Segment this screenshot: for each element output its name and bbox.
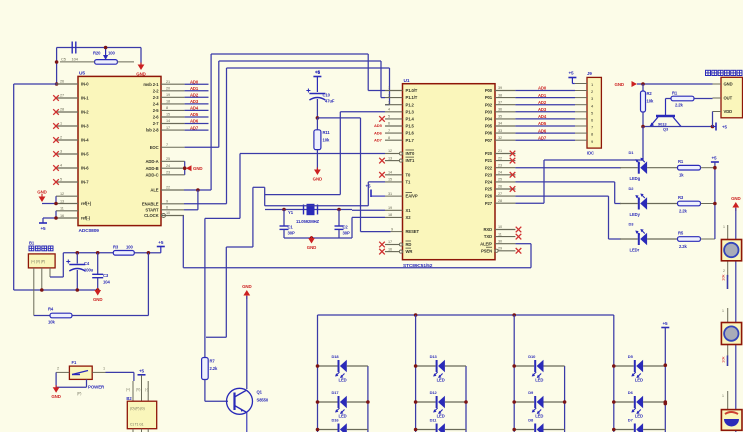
svg-text:22: 22	[166, 186, 170, 190]
svg-text:18: 18	[166, 100, 170, 104]
ADC ADD-A ADD-B ADD-C pins	[146, 157, 185, 177]
MCU X1 X2 pins	[385, 206, 411, 220]
svg-text:P01: P01	[485, 95, 493, 100]
svg-text:AD7: AD7	[374, 137, 383, 142]
wire crystal bottom	[284, 217, 352, 239]
svg-text:P24: P24	[485, 180, 493, 185]
no-connect X marks on IN-1..IN-7	[53, 95, 59, 185]
svg-text:2: 2	[60, 136, 62, 140]
svg-text:P23: P23	[485, 172, 493, 177]
svg-text:R1: R1	[678, 159, 684, 164]
svg-text:36: 36	[498, 108, 502, 112]
svg-text:AD3: AD3	[538, 107, 547, 112]
svg-text:AD5: AD5	[374, 123, 383, 128]
svg-text:100: 100	[126, 245, 133, 250]
svg-text:2-2: 2-2	[153, 88, 160, 93]
wire below S2 blue	[727, 356, 729, 367]
svg-text:5: 5	[60, 178, 62, 182]
wire P22 to LEDg row	[515, 167, 621, 169]
svg-text:34: 34	[498, 122, 502, 126]
wire ALE to START	[184, 190, 198, 210]
svg-text:32: 32	[498, 136, 502, 140]
wire EOC net to P1.1	[185, 61, 385, 147]
svg-text:R3: R3	[113, 245, 119, 250]
svg-text:(+) (V) (P): (+) (V) (P)	[31, 260, 45, 264]
wire IN-0 long left	[14, 84, 57, 290]
svg-text:OUT: OUT	[724, 96, 733, 101]
svg-text:17: 17	[166, 126, 170, 130]
svg-text:38: 38	[498, 93, 502, 97]
svg-text:5: 5	[388, 115, 390, 119]
svg-text:D1: D1	[629, 150, 635, 155]
wire LED matrix column 2	[415, 315, 417, 432]
svg-text:19: 19	[166, 93, 170, 97]
svg-text:Q1: Q1	[257, 390, 263, 395]
svg-text:RXD: RXD	[483, 227, 492, 232]
ground GND port at ADD-B	[183, 165, 203, 171]
capacitor C2 30P	[335, 210, 350, 239]
svg-text:+5: +5	[158, 240, 164, 245]
wire Q3 emitter collector rail	[641, 112, 714, 129]
svg-text:31: 31	[388, 192, 392, 196]
transistor Q3 9013	[650, 99, 682, 132]
svg-text:D5: D5	[628, 354, 634, 359]
wire ref+ to GND	[42, 196, 58, 205]
op-amp U1 STC89C51 chip body	[403, 78, 496, 269]
svg-text:25: 25	[166, 157, 170, 161]
MCU T0 T1 pins	[385, 171, 411, 185]
node reset junction	[316, 116, 320, 120]
svg-text:12: 12	[60, 192, 64, 196]
svg-text:GND: GND	[37, 190, 46, 195]
svg-text:D12: D12	[430, 390, 438, 395]
svg-text:35: 35	[498, 115, 502, 119]
svg-text:LED: LED	[535, 414, 543, 419]
svg-text:AD0: AD0	[190, 79, 199, 84]
svg-text:R2: R2	[647, 91, 653, 96]
wire ALE net to P1.0	[184, 54, 385, 192]
crystal Y1 11.0592MHZ	[288, 204, 320, 224]
svg-text:GND: GND	[307, 245, 316, 250]
wire crystal top	[265, 208, 352, 212]
capacitor C10 47uF	[306, 89, 335, 118]
wire power top rail	[63, 251, 113, 255]
svg-text:2: 2	[57, 367, 59, 371]
svg-text:R1: R1	[672, 91, 678, 96]
svg-text:30P: 30P	[343, 231, 350, 236]
svg-text:47uF: 47uF	[325, 99, 335, 104]
ADC ref pins	[56, 192, 92, 221]
svg-text:27: 27	[498, 192, 502, 196]
svg-text:P03: P03	[485, 109, 493, 114]
svg-text:10k: 10k	[48, 320, 55, 325]
svg-text:IN-1: IN-1	[81, 96, 89, 101]
svg-text:C1: C1	[288, 225, 294, 230]
svg-text:7: 7	[388, 129, 390, 133]
capacitor C3 104	[92, 253, 110, 290]
svg-text:P21: P21	[485, 158, 493, 163]
svg-text:AD3: AD3	[190, 99, 199, 104]
svg-text:RESET: RESET	[406, 229, 420, 234]
LED D17	[316, 390, 370, 419]
svg-text:IN-2: IN-2	[81, 110, 89, 115]
svg-text:T0: T0	[406, 172, 411, 177]
svg-text:AD5: AD5	[190, 112, 199, 117]
buzzer LS1	[721, 391, 742, 430]
svg-text:GND: GND	[51, 394, 60, 399]
svg-text:100u: 100u	[84, 268, 94, 273]
svg-text:POWER: POWER	[88, 385, 105, 390]
svg-text:D6: D6	[628, 390, 634, 395]
svg-text:2.2k: 2.2k	[675, 103, 684, 108]
svg-text:T1: T1	[406, 180, 411, 185]
button S1 pin stubs	[723, 225, 728, 277]
wire reset node to RESET pin	[317, 118, 390, 232]
svg-text:LED: LED	[339, 378, 347, 383]
svg-text:6: 6	[388, 122, 390, 126]
svg-text:P05: P05	[485, 124, 493, 129]
svg-text:IN-5: IN-5	[81, 152, 89, 157]
ground GND top	[136, 63, 145, 77]
ADC EOC pin	[150, 143, 185, 150]
power +5 at ref-	[39, 223, 47, 231]
svg-text:IN-0: IN-0	[81, 82, 89, 87]
svg-text:AD5: AD5	[538, 121, 547, 126]
resistor R11 10k	[314, 118, 331, 170]
svg-text:1: 1	[103, 367, 105, 371]
svg-text:7: 7	[166, 143, 168, 147]
svg-text:+5: +5	[662, 321, 668, 326]
wire X2 to crystal	[352, 216, 385, 218]
wire button rail	[735, 208, 737, 432]
label sensor module chinese	[706, 70, 743, 75]
resistor R2 10k	[641, 84, 654, 127]
svg-text:1: 1	[723, 225, 725, 229]
svg-text:33: 33	[498, 129, 502, 133]
svg-text:AD2: AD2	[538, 100, 547, 105]
svg-text:16: 16	[388, 247, 392, 251]
svg-text:9: 9	[166, 200, 168, 204]
svg-text:104: 104	[72, 57, 79, 62]
svg-text:3: 3	[388, 100, 390, 104]
svg-text:24: 24	[166, 164, 170, 168]
svg-text:13: 13	[60, 199, 64, 203]
svg-text:ADC0809: ADC0809	[79, 228, 100, 234]
wire F1 to B2	[106, 372, 134, 381]
svg-text:D10: D10	[528, 354, 536, 359]
svg-text:21: 21	[166, 80, 170, 84]
resistor R3 100	[113, 245, 148, 256]
svg-text:LEDg: LEDg	[630, 176, 641, 181]
wire vertical to R7	[204, 218, 206, 357]
wire LED matrix top bus	[318, 313, 614, 317]
svg-text:P02: P02	[485, 102, 493, 107]
wire column 3 cathode rail	[564, 366, 566, 432]
svg-text:24: 24	[498, 171, 502, 175]
svg-text:lsb 2-8: lsb 2-8	[146, 128, 159, 133]
svg-text:ENABLE: ENABLE	[142, 201, 159, 206]
svg-text:2.2k: 2.2k	[679, 244, 688, 249]
svg-text:LED: LED	[635, 378, 643, 383]
svg-text:(P): (P)	[77, 392, 81, 396]
svg-text:AD7: AD7	[538, 135, 547, 140]
svg-text:AD6: AD6	[374, 130, 383, 135]
ground GND port sensor	[615, 81, 638, 87]
svg-text:J9: J9	[587, 71, 592, 76]
LED D18	[316, 354, 368, 383]
button S2 pin stubs	[722, 308, 728, 356]
MCU INT0 INT1 pins	[385, 149, 415, 163]
svg-text:D7: D7	[628, 418, 634, 423]
svg-text:AD4: AD4	[538, 114, 547, 119]
connector J9 header body	[587, 71, 601, 156]
svg-text:GND: GND	[93, 297, 102, 302]
svg-text:WR: WR	[406, 249, 413, 254]
svg-text:37: 37	[498, 100, 502, 104]
capacitor C1 30P	[280, 210, 295, 239]
svg-text:(V): (V)	[136, 388, 140, 392]
svg-text:P1.2: P1.2	[406, 102, 415, 107]
fuse F1 POWER switch	[69, 360, 105, 396]
wire LED matrix column 4	[613, 315, 615, 432]
power +5 at R3	[147, 240, 165, 255]
svg-text:2-5: 2-5	[153, 108, 160, 113]
svg-text:4: 4	[388, 108, 390, 112]
svg-text:INT0: INT0	[406, 151, 415, 156]
svg-text:B2: B2	[126, 396, 132, 401]
wire ENABLE net to P1.2	[184, 68, 390, 204]
ground GND below R11	[313, 168, 322, 182]
svg-text:ALE: ALE	[150, 188, 158, 193]
svg-text:2: 2	[388, 93, 390, 97]
wire LED matrix column 1	[317, 315, 319, 432]
no-connect X at RD WR	[379, 242, 385, 255]
svg-text:U1: U1	[404, 78, 410, 84]
svg-text:1: 1	[722, 309, 724, 313]
svg-text:ref(+): ref(+)	[81, 201, 92, 206]
svg-text:+5: +5	[139, 369, 145, 374]
svg-text:1: 1	[388, 86, 390, 90]
svg-text:P07: P07	[485, 138, 493, 143]
ADC left pins IN-0..IN-7	[56, 80, 89, 185]
svg-text:D8: D8	[528, 418, 534, 423]
svg-text:LED: LED	[535, 378, 543, 383]
svg-text:LED: LED	[437, 414, 445, 419]
svg-text:Y1: Y1	[288, 210, 294, 215]
svg-text:C4: C4	[84, 261, 90, 266]
ground GND crystal	[307, 236, 316, 250]
power +5 at B2	[138, 369, 146, 375]
svg-text:C1 T1 G1: C1 T1 G1	[130, 423, 144, 427]
svg-text:39: 39	[498, 86, 502, 90]
svg-text:P22: P22	[485, 165, 493, 170]
svg-text:LED: LED	[437, 378, 445, 383]
svg-text:C10: C10	[323, 93, 331, 98]
svg-text:GND: GND	[731, 196, 740, 201]
svg-text:P20: P20	[485, 151, 493, 156]
svg-text:PSEN: PSEN	[481, 248, 492, 253]
LED D7	[612, 418, 665, 432]
svg-text:R20: R20	[93, 51, 101, 56]
fuse pins	[56, 367, 105, 373]
svg-text:D3: D3	[629, 222, 635, 227]
potentiometer R20	[60, 48, 134, 65]
svg-text:2-7: 2-7	[153, 121, 160, 126]
svg-text:LEDr: LEDr	[630, 248, 640, 253]
op-amp U5 ADC0809 chip body	[78, 71, 161, 235]
svg-text:GND: GND	[724, 82, 733, 87]
LED D9	[512, 390, 566, 419]
ground GND at F1	[51, 372, 86, 399]
label red rotated K1	[721, 275, 726, 281]
svg-text:AD6: AD6	[538, 128, 547, 133]
net labels AD at P1.5-P1.7	[374, 123, 383, 142]
svg-text:AD7: AD7	[190, 125, 199, 130]
svg-text:ADD-B: ADD-B	[146, 166, 159, 171]
ground GND at ref	[37, 190, 46, 203]
svg-text:13: 13	[388, 156, 392, 160]
svg-text:P1.0/T: P1.0/T	[406, 88, 418, 93]
svg-text:P04: P04	[485, 117, 493, 122]
no-connect X at T0	[379, 172, 385, 178]
svg-text:6: 6	[166, 206, 168, 210]
svg-text:18: 18	[388, 213, 392, 217]
svg-text:100: 100	[108, 51, 115, 56]
connector B2 body	[126, 375, 157, 432]
svg-text:GND: GND	[313, 177, 322, 182]
LED D1 LEDg	[620, 150, 647, 181]
wire P1.3 branch	[265, 112, 385, 195]
wire T1 to base network	[206, 182, 385, 337]
svg-text:15: 15	[166, 113, 170, 117]
wire CLOCK to MCU ALE	[183, 216, 531, 268]
svg-text:26: 26	[498, 185, 502, 189]
svg-text:10: 10	[498, 225, 502, 229]
svg-text:GND: GND	[242, 284, 251, 289]
svg-text:P1.6: P1.6	[406, 131, 415, 136]
ADC data pins with AD0-AD7 net labels	[143, 79, 208, 132]
svg-text:Q3: Q3	[663, 127, 669, 132]
wire GND to sensor GND pin	[637, 82, 713, 86]
svg-text:GND: GND	[193, 166, 202, 171]
svg-text:VDD: VDD	[724, 109, 733, 114]
wire top-left loop	[57, 48, 141, 85]
svg-text:21: 21	[498, 149, 502, 153]
svg-text:AD1: AD1	[538, 93, 547, 98]
svg-text:(O) (P) (G): (O) (P) (G)	[130, 407, 145, 411]
svg-text:U5: U5	[79, 71, 85, 77]
junction top wire	[55, 46, 108, 86]
connector J10 body sensor module	[713, 77, 743, 118]
svg-text:22: 22	[498, 156, 502, 160]
svg-text:27: 27	[60, 94, 64, 98]
resistor R1 1k	[647, 159, 715, 178]
svg-text:20: 20	[166, 87, 170, 91]
MCU serial pins RXD TXD ALE PSEN	[480, 225, 515, 253]
svg-text:+5: +5	[40, 226, 46, 231]
svg-text:R7: R7	[210, 359, 216, 364]
svg-text:(+): (+)	[126, 388, 130, 392]
LED D13	[414, 354, 466, 383]
svg-text:14: 14	[388, 171, 392, 175]
header pin stubs	[575, 84, 587, 141]
svg-text:R4: R4	[48, 307, 54, 312]
no-connect X at INT1	[379, 158, 385, 164]
MCU P2 pins	[485, 149, 516, 206]
power +5 at header	[568, 71, 576, 84]
svg-text:R3: R3	[678, 195, 684, 200]
svg-text:ADD-A: ADD-A	[146, 159, 159, 164]
svg-text:+5: +5	[722, 125, 727, 130]
svg-text:1k: 1k	[679, 173, 684, 178]
svg-text:1: 1	[60, 122, 62, 126]
resistor R1 2.2k	[666, 91, 713, 108]
svg-text:AD0: AD0	[538, 86, 547, 91]
svg-text:10k: 10k	[721, 357, 726, 363]
svg-text:B1: B1	[29, 241, 35, 246]
svg-text:D13: D13	[430, 354, 438, 359]
svg-text:S8550: S8550	[257, 398, 269, 403]
LED D6	[612, 390, 667, 419]
connector B1 body	[28, 241, 55, 268]
svg-text:23: 23	[498, 163, 502, 167]
svg-text:GND: GND	[615, 82, 624, 87]
wire power bottom rail	[40, 288, 99, 292]
svg-text:LED: LED	[635, 414, 643, 419]
svg-text:28: 28	[60, 108, 64, 112]
svg-text:P1.5: P1.5	[406, 124, 415, 129]
svg-text:IN-6: IN-6	[81, 166, 89, 171]
svg-text:EOC: EOC	[150, 145, 159, 150]
svg-text:P27: P27	[485, 201, 493, 206]
MCU P1 pins	[385, 86, 418, 143]
svg-text:2.2k: 2.2k	[679, 209, 688, 214]
svg-text:30P: 30P	[288, 231, 295, 236]
svg-text:ALE/P: ALE/P	[480, 241, 492, 246]
no-connect X at P20 P21 P23 P25	[510, 151, 516, 192]
svg-text:STC89C51/52: STC89C51/52	[403, 263, 433, 269]
svg-text:14: 14	[166, 119, 170, 123]
no-connect X at P1.4	[379, 116, 385, 122]
svg-text:(-): (-)	[145, 388, 148, 392]
LED D5	[612, 354, 665, 383]
power +5 sensor	[713, 123, 728, 131]
MCU EA/VP pin with +5	[365, 184, 417, 199]
svg-text:10k: 10k	[721, 275, 726, 281]
svg-text:12: 12	[388, 149, 392, 153]
svg-text:LED: LED	[339, 414, 347, 419]
svg-text:P06: P06	[485, 131, 493, 136]
LED D12	[414, 390, 468, 419]
svg-text:IDC: IDC	[587, 151, 594, 156]
svg-text:29: 29	[498, 247, 502, 251]
svg-text:D17: D17	[332, 390, 340, 395]
no-connect X at RXD TXD PSEN	[516, 227, 522, 254]
svg-text:F1: F1	[72, 360, 77, 365]
svg-text:msb 2-1: msb 2-1	[143, 82, 159, 87]
svg-text:8: 8	[166, 106, 168, 110]
svg-text:R11: R11	[323, 130, 331, 135]
svg-text:28: 28	[498, 199, 502, 203]
wire column 4 cathode rail	[664, 366, 666, 432]
svg-text:ref(-): ref(-)	[81, 216, 91, 221]
LED D10	[512, 354, 564, 383]
transistor Q1 S8550	[227, 388, 269, 432]
power +5 rail LED rows	[711, 156, 719, 240]
LED D16	[316, 418, 368, 432]
svg-text:D16: D16	[332, 418, 340, 423]
button S1	[721, 240, 741, 261]
